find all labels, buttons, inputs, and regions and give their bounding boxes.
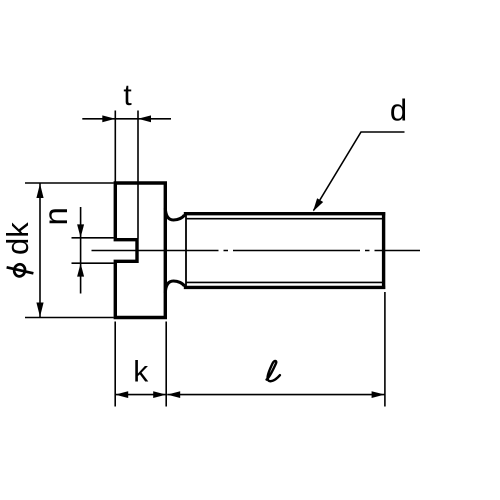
screw head outline with slot notch bbox=[115, 183, 165, 318]
dimension dk arrow top bbox=[36, 184, 43, 198]
dimension n line bbox=[80, 207, 82, 294]
dimension k line bbox=[115, 394, 166, 396]
thread root bottom line bbox=[186, 281, 383, 283]
thread crest top line bbox=[184, 212, 385, 215]
dimension n arrow top bbox=[77, 224, 84, 237]
dimension t arrow left bbox=[102, 115, 115, 122]
dimension t line bbox=[82, 118, 171, 120]
dimension t arrow right bbox=[138, 115, 151, 122]
svg-text:t: t bbox=[123, 79, 132, 112]
dimension k extension line left bbox=[114, 322, 116, 407]
thread root top line bbox=[186, 218, 383, 220]
dimension t extension line left bbox=[114, 111, 116, 184]
leader d arrowhead bbox=[313, 198, 323, 211]
label l (script ell) bbox=[267, 361, 280, 381]
dimension n extension line top bbox=[72, 237, 114, 239]
svg-text:dk: dk bbox=[0, 222, 35, 255]
thread runout boundary line bbox=[185, 215, 187, 286]
dimension k / l shared extension line bbox=[165, 322, 167, 407]
dimension n arrow bottom bbox=[77, 263, 84, 276]
dimension l arrow right bbox=[372, 391, 385, 398]
thread crest bottom line bbox=[184, 286, 385, 289]
leader line for d bbox=[314, 132, 405, 211]
dimension dk extension line bottom bbox=[25, 317, 114, 319]
dimension k arrow right bbox=[153, 391, 166, 398]
underhead fillet bottom bbox=[165, 281, 184, 293]
underhead fillet top bbox=[165, 208, 184, 220]
dimension dk arrow bottom bbox=[36, 303, 43, 317]
dimension t extension line right bbox=[137, 111, 139, 239]
dimension dk extension line top bbox=[25, 182, 114, 184]
label phi symbol bbox=[7, 263, 34, 277]
svg-text:n: n bbox=[37, 207, 74, 225]
svg-text:k: k bbox=[133, 356, 149, 389]
dimension dk line bbox=[39, 183, 41, 318]
svg-text:d: d bbox=[390, 93, 407, 128]
center line (screw axis, chain line) bbox=[92, 250, 421, 252]
dimension l arrow left bbox=[167, 391, 180, 398]
dimension l line bbox=[167, 394, 384, 396]
dimension n extension line bottom bbox=[72, 262, 114, 264]
dimension k arrow left bbox=[115, 391, 128, 398]
dimension l extension line right bbox=[384, 292, 386, 407]
screw end face bbox=[382, 212, 385, 289]
